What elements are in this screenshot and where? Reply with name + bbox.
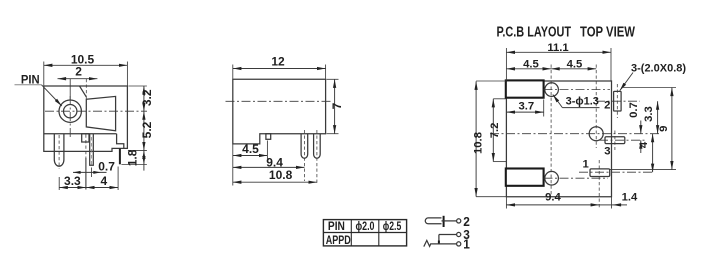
svg-text:12: 12 bbox=[271, 55, 285, 69]
svg-text:ϕ2.0: ϕ2.0 bbox=[356, 221, 375, 233]
svg-text:4: 4 bbox=[101, 174, 108, 188]
dim 1.4 pcb bbox=[599, 191, 638, 208]
dim 10.5 bbox=[44, 53, 128, 86]
dim 10.8 side bbox=[233, 168, 317, 182]
svg-text:9: 9 bbox=[658, 126, 670, 132]
dim 11.1 bbox=[506, 42, 611, 81]
svg-text:10.8: 10.8 bbox=[473, 132, 485, 154]
pcb pad bottom-left bbox=[506, 169, 544, 186]
svg-text:TOP VIEW: TOP VIEW bbox=[580, 25, 635, 41]
front view bottom tab bbox=[82, 134, 89, 142]
front view body bbox=[44, 86, 128, 151]
dim 2 bbox=[58, 65, 98, 100]
front view jack hole circles bbox=[59, 100, 81, 122]
dim 0.7 pcb bbox=[628, 102, 641, 153]
svg-text:APPD: APPD bbox=[326, 235, 351, 247]
pcb vertical centerline through mount holes bbox=[550, 65, 552, 197]
svg-text:4.5: 4.5 bbox=[242, 142, 259, 156]
side view centerline bbox=[226, 100, 332, 102]
svg-text:7.2: 7.2 bbox=[489, 123, 501, 139]
svg-text:P.C.B LAYOUT: P.C.B LAYOUT bbox=[497, 25, 572, 41]
svg-text:2: 2 bbox=[75, 65, 82, 79]
label 3-(2.0X0.8) with leader bbox=[620, 63, 687, 91]
pcb mount hole bottom bbox=[544, 171, 609, 185]
svg-text:9.4: 9.4 bbox=[545, 191, 561, 203]
svg-text:4.5: 4.5 bbox=[523, 59, 539, 71]
svg-text:7: 7 bbox=[330, 102, 344, 109]
svg-text:0.7: 0.7 bbox=[98, 160, 115, 174]
pcb outline box bbox=[506, 81, 611, 197]
side view body bbox=[233, 79, 326, 144]
dim 9.4 side bbox=[233, 156, 305, 170]
front view right pin bbox=[119, 149, 121, 165]
front view centerline horizontal bbox=[45, 110, 147, 112]
schematic pin 3 bbox=[439, 227, 470, 244]
table PIN APPD bbox=[323, 220, 406, 247]
svg-text:3.3: 3.3 bbox=[64, 174, 81, 188]
front view centerline vertical bbox=[69, 96, 71, 139]
svg-text:11.1: 11.1 bbox=[547, 42, 568, 54]
pcb layout title bbox=[497, 25, 636, 41]
pcb axis centerline bbox=[490, 133, 660, 135]
pcb slot pin2 bbox=[596, 84, 640, 118]
dim 9.4 pcb bbox=[506, 191, 599, 208]
schematic plug barrel pin 2 bbox=[425, 214, 470, 229]
front view left leg bbox=[54, 134, 64, 169]
pcb mount hole top bbox=[544, 83, 611, 97]
front view center axis dashed bbox=[85, 135, 87, 159]
dim chain 3.2 5.2 1.8 bbox=[121, 86, 153, 171]
pcb slot pin3 bbox=[599, 131, 647, 151]
svg-text:5.2: 5.2 bbox=[140, 121, 154, 138]
svg-text:4: 4 bbox=[638, 141, 650, 148]
pcb center pin hole bbox=[589, 127, 603, 141]
svg-text:4.5: 4.5 bbox=[567, 59, 583, 71]
svg-text:3.3: 3.3 bbox=[643, 106, 655, 122]
svg-text:3-ϕ1.3: 3-ϕ1.3 bbox=[566, 96, 599, 108]
dim 9 pcb bbox=[610, 88, 676, 170]
pcb slot pin1 bbox=[579, 160, 652, 208]
side view pin 1 bbox=[301, 130, 308, 181]
side view bottom tab bbox=[266, 134, 271, 140]
schematic pin 1 with spring contact bbox=[424, 237, 470, 252]
svg-text:1.4: 1.4 bbox=[622, 191, 638, 203]
dim 7.2 pcb bbox=[489, 99, 506, 162]
svg-text:1: 1 bbox=[582, 158, 588, 170]
dim 4.5 4.5 pcb bbox=[506, 59, 596, 71]
dim 0.7 front bbox=[73, 160, 115, 177]
front view middle pin bbox=[90, 134, 94, 165]
dim 4 pcb bbox=[638, 134, 653, 173]
label PIN with leader bbox=[15, 74, 62, 106]
dim 10.8 pcb bbox=[473, 81, 506, 197]
pcb pad top-left bbox=[506, 80, 544, 97]
dim 3.7 bbox=[506, 100, 543, 117]
dim 3.3 pcb bbox=[643, 101, 658, 134]
svg-text:3: 3 bbox=[604, 146, 610, 158]
svg-text:3.2: 3.2 bbox=[140, 89, 154, 106]
pcb vertical centerline pin3 bbox=[595, 65, 597, 149]
svg-text:3-(2.0X0.8): 3-(2.0X0.8) bbox=[631, 63, 686, 75]
svg-text:1: 1 bbox=[463, 237, 470, 252]
svg-text:2: 2 bbox=[604, 100, 610, 112]
dim 12 bbox=[233, 55, 326, 79]
dim 7 bbox=[327, 79, 344, 133]
side view pin 2 bbox=[314, 130, 321, 185]
svg-text:PIN: PIN bbox=[328, 221, 345, 233]
svg-text:0.7: 0.7 bbox=[628, 102, 640, 118]
svg-text:10.8: 10.8 bbox=[269, 168, 293, 182]
dim 4.5 side bbox=[233, 141, 268, 186]
dim 3.3 and 4 bbox=[59, 167, 118, 191]
front view barrel trapezoid bbox=[80, 86, 116, 131]
svg-text:ϕ2.5: ϕ2.5 bbox=[383, 221, 402, 233]
svg-text:3.7: 3.7 bbox=[518, 100, 534, 112]
svg-text:1.8: 1.8 bbox=[126, 149, 140, 166]
label 3-phi1.3 with leader bbox=[553, 95, 600, 108]
